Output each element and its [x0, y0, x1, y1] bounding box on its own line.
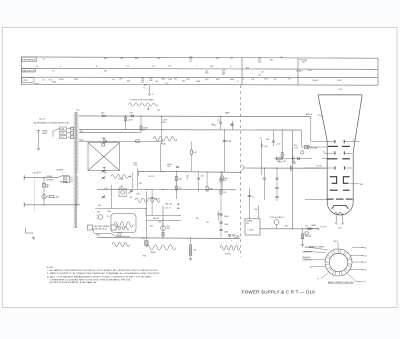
svg-text:20: 20	[143, 130, 145, 132]
svg-text:R48 2.2K: R48 2.2K	[165, 204, 173, 206]
svg-text:C42: C42	[211, 124, 214, 126]
svg-text:TP41: TP41	[107, 211, 111, 213]
svg-text:R42 1K: R42 1K	[149, 176, 155, 178]
svg-text:C50: C50	[223, 192, 226, 194]
svg-text:J40: J40	[258, 74, 261, 76]
svg-text:TO CRT: TO CRT	[320, 226, 326, 228]
svg-text:L40: L40	[105, 188, 108, 190]
svg-text:1. IN-CHASSIS COMPONENTS NOT M: 1. IN-CHASSIS COMPONENTS NOT MOUNTED ON …	[47, 269, 159, 272]
svg-text:T40: T40	[76, 110, 79, 112]
svg-text:NOTES:: NOTES:	[47, 267, 54, 269]
svg-text:V16: V16	[339, 89, 342, 91]
svg-text:R47: R47	[179, 188, 182, 190]
svg-text:M-400: M-400	[313, 80, 318, 82]
svg-text:POWER: POWER	[57, 170, 64, 172]
svg-text:C40: C40	[142, 238, 145, 240]
svg-text:24.8: 24.8	[302, 62, 306, 64]
svg-text:TP1: TP1	[157, 110, 160, 112]
svg-text:P40: P40	[258, 61, 261, 63]
svg-text:R62: R62	[193, 250, 196, 252]
svg-text:ANODE: ANODE	[306, 113, 313, 116]
svg-text:10%: 10%	[205, 79, 209, 81]
svg-text:J1,2: J1,2	[165, 83, 168, 85]
svg-text:D41: D41	[222, 74, 225, 76]
svg-text:1W: 1W	[174, 79, 177, 81]
svg-text:G3: G3	[365, 255, 367, 257]
svg-text:115VAC: 115VAC	[46, 175, 53, 178]
svg-text:NPO: NPO	[216, 79, 220, 81]
svg-text:BLK/WHT: BLK/WHT	[46, 180, 54, 182]
svg-text:R44: R44	[266, 139, 269, 141]
svg-text:TP41A: TP41A	[150, 251, 156, 254]
svg-text:2.2M: 2.2M	[168, 79, 172, 81]
svg-text:R50: R50	[224, 178, 227, 180]
svg-text:C45: C45	[186, 175, 189, 177]
svg-text:R53: R53	[223, 180, 226, 182]
svg-text:TP41: TP41	[143, 256, 147, 258]
svg-text:D41: D41	[130, 113, 133, 115]
svg-text:2. PARTS IDENTITY 'A' PREFI: 2. PARTS IDENTITY 'A' PREFIX INDICATES A…	[47, 272, 161, 275]
svg-text:R57: R57	[285, 225, 288, 227]
svg-text:REG: REG	[162, 122, 166, 124]
svg-text:+ 1.6KV: + 1.6KV	[247, 229, 254, 231]
svg-text:P1: P1	[144, 88, 146, 90]
svg-text:1/2W: 1/2W	[196, 81, 200, 83]
svg-text:C40 .05: C40 .05	[39, 119, 45, 121]
svg-text:4,25: 4,25	[308, 70, 312, 72]
svg-text:TP41B: TP41B	[225, 254, 231, 256]
svg-text:R56: R56	[279, 162, 282, 164]
svg-text:TABULATION: TABULATION	[22, 69, 35, 72]
svg-text:OTHERWISE VOLTAGES REF TO: OTHERWISE VOLTAGES REF TO P/S GND THIS S…	[50, 278, 132, 281]
svg-text:BASE CONNECTIONS (V16): BASE CONNECTIONS (V16)	[328, 281, 354, 284]
svg-text:PL40: PL40	[74, 79, 78, 81]
svg-text:F40: F40	[104, 58, 107, 60]
svg-text:D44: D44	[97, 212, 100, 214]
svg-text:R60: R60	[255, 209, 258, 211]
svg-text:5%: 5%	[288, 79, 291, 81]
svg-text:R59: R59	[294, 145, 297, 147]
svg-text:D40: D40	[101, 113, 104, 115]
svg-text:R54 680: R54 680	[153, 218, 159, 220]
svg-text:C52: C52	[251, 197, 254, 199]
svg-text:ADJ: ADJ	[299, 70, 303, 73]
svg-text:TO V16: TO V16	[316, 166, 322, 168]
svg-text:D43: D43	[98, 205, 101, 207]
svg-text:230V: 230V	[60, 137, 64, 139]
svg-text:HEATER NC: HEATER NC	[303, 250, 313, 253]
svg-text:TYPE: TYPE	[22, 80, 28, 82]
svg-text:R58 1M: R58 1M	[305, 236, 312, 238]
svg-text:C47: C47	[305, 226, 308, 228]
svg-text:FOR FURTHER DETAILS.: FOR FURTHER DETAILS.	[50, 281, 99, 284]
svg-text:R45: R45	[194, 152, 197, 154]
svg-text:J40: J40	[283, 161, 286, 163]
svg-text:(FOCUS): (FOCUS)	[311, 148, 318, 150]
svg-text:R46: R46	[179, 178, 182, 180]
svg-text:R51: R51	[150, 226, 153, 228]
svg-text:C51: C51	[206, 222, 209, 224]
svg-text:R40: R40	[103, 139, 106, 141]
svg-text:POWER SUPPLY & C R T —: POWER SUPPLY & C R T — D16	[242, 290, 316, 295]
svg-text:R44: R44	[210, 66, 213, 68]
svg-text:C40: C40	[155, 81, 158, 83]
svg-text:TP41: TP41	[96, 234, 100, 236]
svg-text:(SEE NOTE 3): (SEE NOTE 3)	[94, 228, 107, 230]
svg-text:TP42: TP42	[232, 234, 236, 236]
svg-text:R60: R60	[135, 58, 138, 60]
svg-text:C401: C401	[337, 80, 342, 82]
svg-text:C43: C43	[230, 124, 233, 126]
svg-text:L41: L41	[189, 61, 192, 63]
svg-text:TP40: TP40	[136, 194, 140, 196]
svg-text:43: 43	[43, 58, 45, 60]
svg-text:1.8: 1.8	[52, 71, 55, 73]
svg-text:MAIN: MAIN	[225, 112, 230, 115]
svg-text:GRN/YEL: GRN/YEL	[60, 182, 67, 184]
svg-text:C46: C46	[201, 176, 204, 178]
svg-text:+B: +B	[365, 262, 367, 264]
svg-text:C56: C56	[157, 58, 160, 60]
svg-text:DS40: DS40	[55, 197, 59, 199]
svg-text:J4: J4	[296, 70, 298, 72]
svg-text:PIN 12: PIN 12	[333, 241, 338, 243]
svg-text:T0A2: T0A2	[52, 81, 56, 84]
svg-text:.05: .05	[112, 79, 115, 81]
svg-text:TWIST: TWIST	[42, 133, 47, 135]
svg-text:3. ALL VOLTAGES MEASURED WI: 3. ALL VOLTAGES MEASURED WITH VOM, CONTR…	[47, 275, 153, 278]
svg-text:115V: 115V	[60, 133, 63, 135]
svg-text:L41: L41	[130, 197, 133, 199]
svg-text:DEF: DEF	[360, 184, 363, 186]
svg-text:Q40: Q40	[158, 222, 161, 224]
svg-text:Q40: Q40	[120, 186, 123, 188]
svg-text:TO PIN 4 OF T40 (SEE): TO PIN 4 OF T40 (SEE)	[130, 99, 155, 101]
svg-text:R55: R55	[196, 218, 199, 220]
svg-text:1.8: 1.8	[42, 80, 45, 82]
svg-text:R43: R43	[139, 183, 142, 185]
svg-text:C49B: C49B	[224, 224, 228, 226]
svg-text:C47 .01: C47 .01	[165, 208, 171, 210]
svg-text:TP40A: TP40A	[160, 143, 166, 146]
svg-text:TP41A: TP41A	[116, 234, 122, 237]
svg-text:J40: J40	[280, 57, 283, 59]
svg-text:ALTERNATE VOLTAGE SELECTOR: ALTERNATE VOLTAGE SELECTOR	[34, 122, 70, 125]
svg-text:G2: G2	[323, 152, 325, 154]
svg-text:C46 0.1: C46 0.1	[154, 199, 160, 201]
svg-text:D40: D40	[205, 72, 208, 74]
svg-text:V-16: V-16	[264, 79, 268, 81]
svg-text:C40: C40	[168, 66, 171, 68]
svg-text:REFERENCE: REFERENCE	[22, 60, 36, 62]
svg-text:2W: 2W	[104, 71, 107, 73]
svg-text:F40 2A: F40 2A	[33, 171, 39, 174]
svg-text:L40: L40	[120, 58, 123, 60]
svg-text:GRID NO.2: GRID NO.2	[305, 247, 314, 249]
svg-text:C40: C40	[128, 192, 131, 194]
svg-text:+150V: +150V	[127, 120, 133, 122]
svg-text:D45: D45	[182, 81, 185, 83]
svg-text:a.b: a.b	[152, 66, 155, 68]
svg-text:C48: C48	[309, 228, 312, 230]
svg-text:C41: C41	[104, 173, 107, 175]
svg-text:.047: .047	[186, 79, 190, 81]
svg-text:TP: TP	[260, 138, 262, 140]
svg-text:J1: J1	[152, 94, 154, 96]
svg-text:T41: T41	[230, 58, 233, 60]
svg-text:W5: W5	[270, 60, 273, 62]
svg-text:R49: R49	[209, 189, 212, 191]
svg-text:.01: .01	[186, 178, 188, 180]
svg-text:4-8: 4-8	[261, 71, 264, 73]
svg-text:CATHODE: CATHODE	[302, 256, 311, 259]
svg-text:& GRID NO.1: & GRID NO.1	[302, 260, 312, 262]
svg-text:2: 2	[60, 66, 61, 68]
svg-text:G4: G4	[353, 139, 355, 141]
svg-text:C48: C48	[264, 146, 267, 148]
svg-text:1N40: 1N40	[161, 79, 165, 81]
svg-text:V17 HV RECT: V17 HV RECT	[270, 217, 284, 219]
svg-text:G1: G1	[310, 267, 312, 269]
svg-text:+C44: +C44	[276, 144, 280, 146]
svg-text:14-40: 14-40	[59, 79, 64, 81]
svg-text:R61: R61	[216, 58, 219, 60]
